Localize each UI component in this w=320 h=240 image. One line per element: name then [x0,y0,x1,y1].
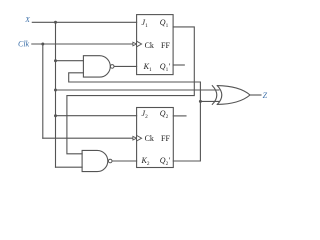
svg-text:FF: FF [161,134,170,143]
svg-text:K2: K2 [141,156,150,167]
wire Z output [250,94,261,96]
svg-text:Clk: Clk [18,39,30,48]
svg-text:Q1: Q1 [160,18,169,29]
svg-text:Q1′: Q1′ [160,62,170,73]
xor gate G3 [212,86,250,105]
clock dynamic triangle FF1 [137,41,142,47]
wire Q1' stub [173,64,184,66]
wire Clk vertical branch [42,44,44,138]
wire Q2' feedback vertical [173,82,200,161]
svg-text:X: X [24,15,30,24]
wire X branch to XOR top input [56,89,220,91]
wire Q2' branch to XOR bottom input [200,100,219,102]
node Clk line junction [41,43,44,46]
nand gate G1 bubble [110,65,114,69]
svg-text:K1: K1 [143,62,152,73]
svg-text:J1: J1 [142,18,149,29]
svg-text:Q2: Q2 [160,109,169,120]
svg-text:Z: Z [263,91,268,100]
wire X branch to NAND2 bottom input [56,166,83,168]
svg-text:Q2′: Q2′ [160,156,170,167]
nand gate G2 bubble [108,159,112,163]
wire Clk input horizontal to FF1 Ck [32,43,134,45]
wire X branch to J2 [56,115,137,117]
clock arrowhead FF1 [133,42,137,46]
node XOR top branch junction [54,89,57,92]
svg-text:J2: J2 [142,109,149,120]
flip-flop U2 box [137,108,174,168]
nand gate G1 body [83,56,110,77]
svg-text:FF: FF [161,41,170,50]
wire X vertical branch [55,22,57,167]
wire X input horizontal to J1 [32,21,136,23]
nand gate G2 body [82,150,108,171]
clock dynamic triangle FF2 [137,135,142,141]
node junction dots [41,21,202,117]
node J2 branch junction [54,114,57,117]
wire NAND1 top input from X [56,60,84,62]
clock arrowhead FF2 [133,136,137,140]
node X line junction [54,21,57,24]
wire NAND2 output to K2 [112,160,136,162]
node XOR bottom input junction [199,100,202,103]
wire NAND1 bottom input from Q2' feedback [69,73,201,82]
wire Q1 output feedback to NAND2 top input [67,27,194,154]
svg-text:Ck: Ck [145,41,154,50]
node NAND1 top input junction [54,59,57,62]
svg-text:Ck: Ck [145,134,154,143]
wire NAND1 output to K1 [114,65,136,67]
wire Clk to FF2 Ck [43,137,134,139]
wire Q2 stub [173,115,186,117]
flip-flop U1 box [137,15,174,75]
